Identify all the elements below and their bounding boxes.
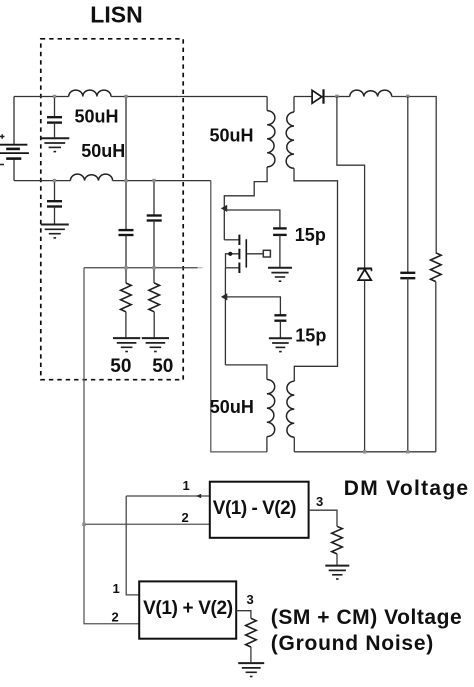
svg-text:50uH: 50uH (210, 397, 254, 417)
svg-text:15p: 15p (295, 225, 326, 245)
svg-text:1: 1 (183, 478, 190, 493)
svg-text:50uH: 50uH (75, 107, 119, 127)
svg-text:DM Voltage: DM Voltage (344, 477, 470, 500)
svg-text:1: 1 (113, 581, 120, 596)
svg-text:50uH: 50uH (210, 125, 254, 145)
svg-text:50: 50 (152, 356, 173, 377)
svg-text:3: 3 (316, 494, 323, 509)
svg-text:50uH: 50uH (81, 141, 125, 161)
svg-text:15p: 15p (295, 326, 326, 346)
svg-text:V(1) - V(2): V(1) - V(2) (213, 498, 296, 519)
svg-text:(SM + CM) Voltage: (SM + CM) Voltage (271, 606, 462, 629)
svg-text:V(1) + V(2): V(1) + V(2) (143, 598, 233, 619)
svg-text:2: 2 (182, 510, 189, 525)
svg-text:LISN: LISN (90, 2, 142, 28)
svg-text:50: 50 (110, 356, 131, 377)
svg-text:(Ground Noise): (Ground Noise) (271, 632, 434, 655)
svg-text:3: 3 (247, 592, 254, 607)
svg-text:2: 2 (112, 610, 119, 625)
